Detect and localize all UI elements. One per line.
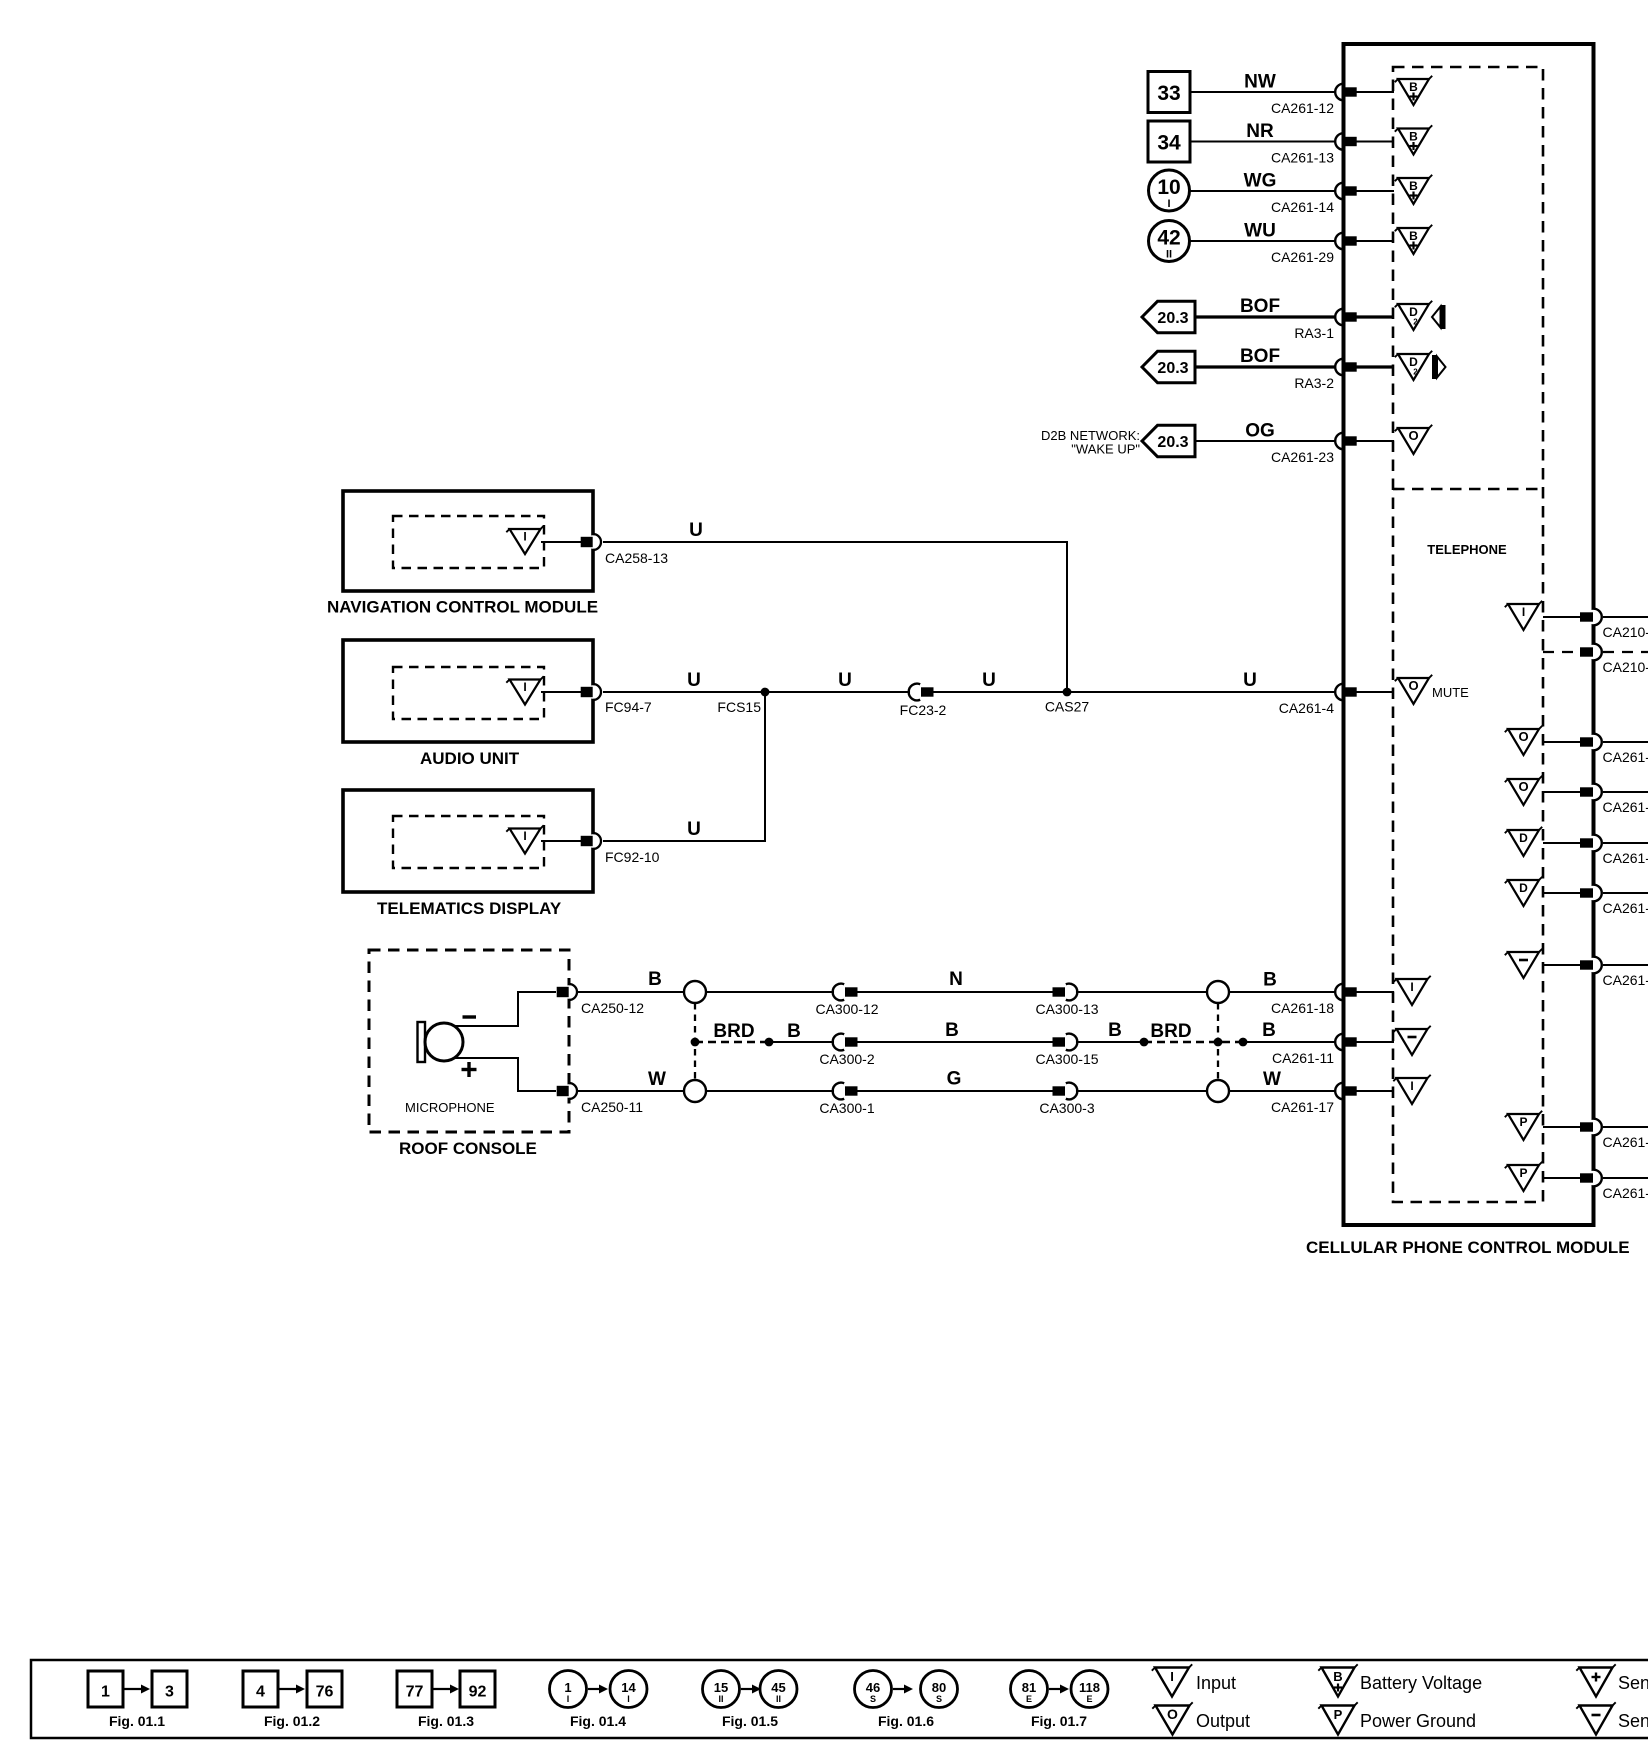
svg-text:CAS27: CAS27 bbox=[1045, 699, 1090, 715]
wire label NR bbox=[1246, 121, 1274, 142]
nav input symbol bbox=[506, 526, 543, 554]
wire OG bbox=[1195, 440, 1335, 442]
dashed wire out CA210-5 bbox=[1603, 651, 1648, 653]
svg-text:BRD: BRD bbox=[713, 1021, 754, 1042]
wire WG bbox=[1190, 190, 1335, 192]
D2B network note bbox=[1041, 428, 1140, 457]
svg-text:B: B bbox=[1333, 1669, 1342, 1684]
svg-text:U: U bbox=[838, 670, 852, 691]
inline connector CA300-2 bbox=[819, 1034, 874, 1067]
svg-text:BOF: BOF bbox=[1240, 296, 1280, 317]
svg-text:RA3-1: RA3-1 bbox=[1294, 325, 1334, 341]
pin CA261-17 bbox=[1271, 1083, 1357, 1115]
legend output symbol bbox=[1152, 1702, 1250, 1734]
D symbol CA261-3 bbox=[1505, 877, 1542, 906]
svg-text:76: 76 bbox=[316, 1684, 334, 1701]
shield circle top-left bbox=[684, 981, 706, 1003]
pin RA3-2 bbox=[1294, 359, 1356, 391]
svg-text:B: B bbox=[1108, 1020, 1122, 1041]
svg-text:S: S bbox=[870, 1694, 876, 1704]
pin CA261-3 bbox=[1580, 885, 1648, 916]
svg-text:CA261-5: CA261-5 bbox=[1603, 972, 1648, 988]
wire label BRD left bbox=[713, 1021, 754, 1042]
connector circle 42 bbox=[1149, 221, 1190, 262]
pentagon connector 20.3 (OG) bbox=[1142, 425, 1195, 456]
svg-text:4: 4 bbox=[256, 1684, 265, 1701]
cellular phone control module label bbox=[1306, 1238, 1630, 1257]
pin CA261-29 bbox=[1271, 233, 1357, 265]
inline connector CA300-13 bbox=[1035, 984, 1098, 1017]
svg-text:CA300-3: CA300-3 bbox=[1039, 1100, 1094, 1116]
svg-text:P: P bbox=[1334, 1707, 1343, 1722]
pin CA261-16 bbox=[1580, 1170, 1648, 1201]
svg-text:NR: NR bbox=[1246, 121, 1274, 142]
svg-text:B: B bbox=[1409, 179, 1418, 193]
svg-text:U: U bbox=[689, 520, 703, 541]
svg-text:FC92-10: FC92-10 bbox=[605, 849, 660, 865]
pin CA261-13 bbox=[1271, 133, 1357, 165]
svg-text:B: B bbox=[648, 969, 662, 990]
svg-text:CA250-11: CA250-11 bbox=[581, 1099, 643, 1115]
pin CA250-12 bbox=[557, 984, 645, 1016]
wire label U a2 bbox=[838, 670, 852, 691]
svg-text:CA261-29: CA261-29 bbox=[1271, 249, 1334, 265]
wire NW bbox=[1190, 91, 1335, 93]
sensor minus symbol CA261-5 bbox=[1505, 949, 1542, 978]
svg-text:I: I bbox=[1522, 605, 1525, 619]
svg-text:14: 14 bbox=[621, 1680, 636, 1695]
telematics input symbol bbox=[506, 825, 543, 853]
svg-text:CA300-15: CA300-15 bbox=[1035, 1051, 1098, 1067]
svg-text:CA250-12: CA250-12 bbox=[581, 1000, 644, 1016]
wire out CA261-3 bbox=[1603, 892, 1648, 894]
wire label U nav bbox=[689, 520, 703, 541]
connector circle 10 bbox=[1149, 170, 1190, 211]
svg-text:U: U bbox=[982, 670, 996, 691]
lead to O row bbox=[1356, 440, 1394, 442]
inline connector CA300-3 bbox=[1039, 1083, 1094, 1116]
svg-text:Battery Voltage: Battery Voltage bbox=[1360, 1673, 1482, 1693]
svg-text:CA261-18: CA261-18 bbox=[1271, 1000, 1334, 1016]
mic wire minus bbox=[454, 992, 556, 1026]
svg-text:P: P bbox=[1519, 1166, 1527, 1180]
svg-text:S: S bbox=[936, 1694, 942, 1704]
shield circle top-right bbox=[1207, 981, 1229, 1003]
lead to I bottom bbox=[1356, 1090, 1394, 1092]
lead to mute bbox=[1356, 691, 1393, 693]
battery voltage symbol row4 bbox=[1395, 225, 1432, 254]
pin RA3-1 bbox=[1294, 309, 1356, 341]
speaker icon left bbox=[1432, 305, 1446, 329]
wire out CA261-2 bbox=[1603, 842, 1648, 844]
svg-text:U: U bbox=[687, 819, 701, 840]
lead CA261-9 bbox=[1543, 791, 1580, 793]
svg-text:20.3: 20.3 bbox=[1157, 310, 1188, 327]
mic wire plus bbox=[454, 1058, 556, 1091]
svg-text:U: U bbox=[1243, 670, 1257, 691]
svg-text:TELEPHONE: TELEPHONE bbox=[1427, 542, 1507, 557]
shield stub left bbox=[694, 1003, 696, 1080]
wire mic bottom bbox=[577, 1090, 1335, 1092]
legend fig 01.6 bbox=[855, 1671, 958, 1730]
drain dashed BRD left bbox=[695, 1041, 769, 1043]
telematics lead bbox=[541, 840, 581, 842]
legend fig 01.2 bbox=[243, 1671, 342, 1729]
pin CA250-11 bbox=[557, 1083, 644, 1115]
svg-text:CA261-11: CA261-11 bbox=[1272, 1050, 1334, 1066]
telematics display box bbox=[343, 790, 593, 892]
roof console dashed box bbox=[369, 950, 569, 1132]
legend power ground symbol bbox=[1318, 1702, 1476, 1734]
inline connector CA300-1 bbox=[819, 1083, 874, 1116]
module inner dashed box bbox=[1393, 67, 1543, 1202]
wire NR bbox=[1190, 141, 1335, 143]
svg-text:45: 45 bbox=[771, 1680, 785, 1695]
svg-text:Fig. 01.1: Fig. 01.1 bbox=[109, 1713, 165, 1729]
svg-text:E: E bbox=[1026, 1694, 1032, 1704]
nav lead bbox=[541, 541, 581, 543]
svg-text:CA261-17: CA261-17 bbox=[1271, 1099, 1334, 1115]
wire out CA261-7 bbox=[1603, 741, 1648, 743]
svg-text:OG: OG bbox=[1245, 421, 1275, 442]
svg-text:B: B bbox=[1409, 80, 1418, 94]
shield stub right bbox=[1217, 1003, 1219, 1080]
svg-text:E: E bbox=[1086, 1694, 1092, 1704]
svg-text:II: II bbox=[776, 1694, 781, 1704]
svg-text:NAVIGATION CONTROL MODULE: NAVIGATION CONTROL MODULE bbox=[327, 598, 598, 617]
svg-text:2: 2 bbox=[1413, 368, 1418, 377]
lead to minus sym bbox=[1356, 1041, 1394, 1043]
svg-text:CA300-2: CA300-2 bbox=[819, 1051, 874, 1067]
junction FCS15 bbox=[717, 688, 769, 715]
svg-text:BRD: BRD bbox=[1150, 1021, 1191, 1042]
output symbol MUTE bbox=[1395, 675, 1469, 704]
drain dot left shield bbox=[691, 1038, 700, 1047]
wire label W br bbox=[1263, 1069, 1281, 1090]
wire U telematics bbox=[603, 692, 765, 841]
svg-text:MICROPHONE: MICROPHONE bbox=[405, 1100, 495, 1115]
cellular phone control module box bbox=[1344, 44, 1594, 1225]
lead CA261-5 bbox=[1543, 964, 1580, 966]
svg-text:II: II bbox=[1166, 249, 1172, 261]
svg-text:B: B bbox=[1409, 130, 1418, 144]
svg-text:Fig. 01.7: Fig. 01.7 bbox=[1031, 1713, 1087, 1729]
svg-text:I: I bbox=[567, 1694, 570, 1704]
pin CA261-11 bbox=[1272, 1034, 1357, 1066]
svg-text:3: 3 bbox=[165, 1684, 174, 1701]
wire label B m4 bbox=[1262, 1020, 1276, 1041]
wire label B tr bbox=[1263, 970, 1277, 991]
pin CA261-7 bbox=[1580, 734, 1648, 765]
svg-text:CA261-7: CA261-7 bbox=[1603, 749, 1648, 765]
pin CA210-5 bbox=[1580, 644, 1648, 675]
output symbol OG row bbox=[1395, 425, 1432, 454]
svg-text:Output: Output bbox=[1196, 1711, 1250, 1731]
D2 symbol left speaker bbox=[1395, 301, 1432, 330]
svg-text:WG: WG bbox=[1244, 171, 1277, 192]
legend fig 01.1 bbox=[88, 1671, 187, 1729]
svg-text:92: 92 bbox=[469, 1684, 487, 1701]
lead to D2 row2 bbox=[1356, 365, 1394, 368]
pin CA261-1 bbox=[1580, 1119, 1648, 1150]
microphone plus sign bbox=[462, 1062, 477, 1077]
lead to B+ row3 bbox=[1356, 190, 1394, 192]
nav inner dashed box bbox=[393, 516, 544, 568]
svg-text:FC94-7: FC94-7 bbox=[605, 699, 652, 715]
D2 symbol right speaker bbox=[1395, 351, 1432, 380]
audio input symbol bbox=[506, 676, 543, 704]
svg-text:U: U bbox=[687, 670, 701, 691]
svg-text:15: 15 bbox=[714, 1680, 728, 1695]
audio inner dashed box bbox=[393, 667, 544, 719]
pin CA261-12 bbox=[1271, 84, 1357, 116]
svg-text:FC23-2: FC23-2 bbox=[900, 702, 947, 718]
drain dot right shield bbox=[1214, 1038, 1223, 1047]
svg-text:O: O bbox=[1408, 678, 1418, 693]
wire label B m1 bbox=[787, 1021, 801, 1042]
svg-text:Fig. 01.6: Fig. 01.6 bbox=[878, 1713, 934, 1729]
legend fig 01.5 bbox=[703, 1671, 798, 1730]
svg-text:Fig. 01.5: Fig. 01.5 bbox=[722, 1713, 778, 1729]
svg-text:B: B bbox=[1263, 970, 1277, 991]
svg-text:I: I bbox=[1170, 1669, 1174, 1684]
wire out CA261-9 bbox=[1603, 791, 1648, 793]
svg-text:I: I bbox=[1410, 980, 1413, 994]
output symbol CA261-9 bbox=[1505, 776, 1542, 805]
wire label U tel bbox=[687, 819, 701, 840]
legend battery voltage symbol bbox=[1318, 1664, 1482, 1696]
legend fig 01.3 bbox=[397, 1671, 495, 1729]
wire out CA261-1 bbox=[1603, 1126, 1648, 1128]
svg-text:CA261-12: CA261-12 bbox=[1271, 100, 1334, 116]
drain dot right-a bbox=[1140, 1038, 1149, 1047]
svg-text:B: B bbox=[1262, 1020, 1276, 1041]
svg-text:ROOF CONSOLE: ROOF CONSOLE bbox=[399, 1139, 537, 1158]
battery voltage symbol row2 bbox=[1395, 125, 1432, 154]
svg-text:N: N bbox=[949, 969, 963, 990]
wire out CA261-5 bbox=[1603, 964, 1648, 966]
input symbol mic bottom bbox=[1393, 1075, 1430, 1104]
wire label B m2 bbox=[945, 1020, 959, 1041]
svg-text:20.3: 20.3 bbox=[1157, 434, 1188, 451]
svg-text:WU: WU bbox=[1244, 221, 1276, 242]
legend box bbox=[31, 1660, 1648, 1738]
svg-text:42: 42 bbox=[1157, 227, 1180, 250]
wire label OG bbox=[1245, 421, 1275, 442]
svg-text:I: I bbox=[627, 1694, 630, 1704]
pin CA261-4 bbox=[1279, 684, 1357, 716]
telematics display label bbox=[377, 899, 562, 918]
wire U nav bbox=[603, 542, 1067, 692]
svg-text:CA261-2: CA261-2 bbox=[1603, 850, 1648, 866]
svg-text:CA261-23: CA261-23 bbox=[1271, 449, 1334, 465]
svg-text:77: 77 bbox=[406, 1684, 424, 1701]
svg-text:CA300-1: CA300-1 bbox=[819, 1100, 874, 1116]
drain dashed BRD right bbox=[1143, 1041, 1243, 1044]
svg-text:O: O bbox=[1518, 779, 1528, 794]
svg-text:"WAKE UP": "WAKE UP" bbox=[1071, 442, 1140, 457]
svg-text:D: D bbox=[1519, 881, 1528, 895]
svg-text:FCS15: FCS15 bbox=[717, 699, 761, 715]
svg-text:CA300-13: CA300-13 bbox=[1035, 1001, 1098, 1017]
legend fig 01.4 bbox=[550, 1671, 648, 1730]
svg-text:46: 46 bbox=[866, 1680, 880, 1695]
pin CA261-2 bbox=[1580, 835, 1648, 866]
svg-text:CA261-3: CA261-3 bbox=[1603, 900, 1648, 916]
svg-text:CA261-16: CA261-16 bbox=[1603, 1185, 1648, 1201]
svg-text:BOF: BOF bbox=[1240, 346, 1280, 367]
svg-text:B: B bbox=[1409, 229, 1418, 243]
wire mic top bbox=[577, 991, 1335, 993]
lead to D2 row bbox=[1356, 315, 1394, 318]
connector square 34 bbox=[1148, 121, 1190, 162]
svg-text:G: G bbox=[947, 1069, 962, 1090]
lead to I top bbox=[1356, 991, 1394, 993]
power ground symbol CA261-1 bbox=[1505, 1111, 1542, 1140]
pin CA261-23 bbox=[1271, 433, 1357, 465]
wire out CA210-4 bbox=[1603, 616, 1648, 618]
lead to B+ row4 bbox=[1356, 240, 1394, 242]
microphone minus sign bbox=[463, 1015, 477, 1018]
wire label WU bbox=[1244, 221, 1276, 242]
telephone label bbox=[1427, 542, 1507, 557]
lead CA261-16 bbox=[1543, 1177, 1580, 1179]
svg-text:Sensor +: Sensor + bbox=[1618, 1673, 1648, 1693]
wire label G bbox=[947, 1069, 962, 1090]
pin FC92-10 bbox=[581, 833, 660, 865]
wire BOF 2 bbox=[1195, 365, 1335, 368]
legend input symbol bbox=[1152, 1664, 1236, 1696]
svg-text:118: 118 bbox=[1079, 1680, 1100, 1695]
junction CAS27 bbox=[1045, 688, 1090, 715]
power ground symbol CA261-16 bbox=[1505, 1162, 1542, 1191]
inline connector CA300-15 bbox=[1035, 1034, 1098, 1067]
input symbol mic top bbox=[1393, 976, 1430, 1005]
svg-text:I: I bbox=[523, 829, 526, 843]
svg-text:P: P bbox=[1519, 1115, 1527, 1129]
wire label B m3 bbox=[1108, 1020, 1122, 1041]
pentagon connector 20.3 (RA3-1) bbox=[1142, 301, 1195, 332]
svg-text:I: I bbox=[523, 680, 526, 694]
wire label NW bbox=[1244, 72, 1276, 93]
svg-text:20.3: 20.3 bbox=[1157, 360, 1188, 377]
output symbol CA261-7 bbox=[1505, 726, 1542, 755]
svg-text:NW: NW bbox=[1244, 72, 1276, 93]
lead CA210-4 bbox=[1543, 616, 1580, 618]
svg-text:CA258-13: CA258-13 bbox=[605, 550, 668, 566]
svg-text:CA261-4: CA261-4 bbox=[1279, 700, 1334, 716]
lead CA261-3 bbox=[1543, 892, 1580, 894]
drain dot left bbox=[765, 1038, 774, 1047]
wire BOF 1 bbox=[1195, 315, 1335, 318]
drain dot right-b bbox=[1239, 1038, 1248, 1047]
svg-text:II: II bbox=[718, 1694, 723, 1704]
lead CA261-2 bbox=[1543, 842, 1580, 844]
svg-text:Sensor -: Sensor - bbox=[1618, 1711, 1648, 1731]
svg-text:1: 1 bbox=[564, 1680, 571, 1695]
lead CA261-7 bbox=[1543, 741, 1580, 743]
telematics inner dashed box bbox=[393, 816, 544, 868]
svg-text:Fig. 01.3: Fig. 01.3 bbox=[418, 1713, 474, 1729]
svg-text:AUDIO UNIT: AUDIO UNIT bbox=[420, 749, 520, 768]
sensor minus symbol mic bbox=[1393, 1026, 1430, 1055]
svg-text:Input: Input bbox=[1196, 1673, 1236, 1693]
pin CA261-9 bbox=[1580, 784, 1648, 815]
svg-text:RA3-2: RA3-2 bbox=[1294, 375, 1334, 391]
wire label B tl bbox=[648, 969, 662, 990]
svg-text:Fig. 01.4: Fig. 01.4 bbox=[570, 1713, 626, 1729]
battery voltage symbol row3 bbox=[1395, 175, 1432, 204]
wire label BOF 1 bbox=[1240, 296, 1280, 317]
pin CA258-13 bbox=[581, 534, 669, 566]
pentagon connector 20.3 (RA3-2) bbox=[1142, 351, 1195, 382]
connector square 33 bbox=[1148, 72, 1190, 113]
inline connector FC23-2 bbox=[900, 684, 947, 718]
audio lead bbox=[541, 691, 581, 693]
wire out CA261-16 bbox=[1603, 1177, 1648, 1179]
svg-text:CELLULAR PHONE CONTROL MODULE: CELLULAR PHONE CONTROL MODULE bbox=[1306, 1238, 1630, 1257]
svg-text:1: 1 bbox=[101, 1684, 110, 1701]
pin FC94-7 bbox=[581, 684, 652, 715]
svg-text:I: I bbox=[1410, 1079, 1413, 1093]
dashed lead CA210-5 bbox=[1543, 651, 1580, 653]
svg-text:I: I bbox=[523, 530, 526, 544]
svg-text:Fig. 01.2: Fig. 01.2 bbox=[264, 1713, 320, 1729]
svg-text:CA261-9: CA261-9 bbox=[1603, 799, 1648, 815]
roof console label bbox=[399, 1139, 537, 1158]
shield circle bottom-right bbox=[1207, 1080, 1229, 1102]
svg-text:CA210-4: CA210-4 bbox=[1603, 624, 1648, 640]
speaker icon right bbox=[1432, 355, 1446, 379]
svg-text:O: O bbox=[1167, 1706, 1178, 1722]
pin CA210-4 bbox=[1580, 609, 1648, 640]
svg-text:B: B bbox=[787, 1021, 801, 1042]
wire U audio bbox=[603, 691, 1335, 693]
svg-text:CA261-14: CA261-14 bbox=[1271, 199, 1334, 215]
wire label WG bbox=[1244, 171, 1277, 192]
svg-text:CA261-1: CA261-1 bbox=[1603, 1134, 1648, 1150]
svg-text:B: B bbox=[945, 1020, 959, 1041]
pin CA261-18 bbox=[1271, 984, 1357, 1016]
pin CA261-5 bbox=[1580, 957, 1648, 988]
wire B seg1 bbox=[769, 1041, 1335, 1043]
pin CA261-14 bbox=[1271, 183, 1357, 215]
wire label U a1 bbox=[687, 670, 701, 691]
svg-text:34: 34 bbox=[1157, 132, 1181, 155]
svg-text:33: 33 bbox=[1157, 82, 1180, 105]
wire label U a3 bbox=[982, 670, 996, 691]
legend sensor plus symbol bbox=[1576, 1664, 1648, 1696]
svg-text:CA210-5: CA210-5 bbox=[1603, 659, 1648, 675]
wire WU bbox=[1190, 240, 1335, 242]
svg-text:O: O bbox=[1518, 729, 1528, 744]
legend fig 01.7 bbox=[1011, 1671, 1109, 1730]
svg-text:Power Ground: Power Ground bbox=[1360, 1711, 1476, 1731]
svg-text:D: D bbox=[1519, 831, 1528, 845]
audio unit box bbox=[343, 640, 593, 742]
lead to B+ row1 bbox=[1356, 91, 1394, 93]
microphone symbol bbox=[418, 1022, 464, 1062]
wire label U a4 bbox=[1243, 670, 1257, 691]
legend sensor minus symbol bbox=[1576, 1702, 1648, 1734]
wire label W bl bbox=[648, 1069, 666, 1090]
svg-text:I: I bbox=[1167, 198, 1170, 210]
svg-text:CA300-12: CA300-12 bbox=[815, 1001, 878, 1017]
lead to B+ row2 bbox=[1356, 141, 1394, 143]
navigation control module box bbox=[343, 491, 593, 591]
svg-text:CA261-13: CA261-13 bbox=[1271, 150, 1334, 166]
microphone label bbox=[405, 1100, 495, 1115]
